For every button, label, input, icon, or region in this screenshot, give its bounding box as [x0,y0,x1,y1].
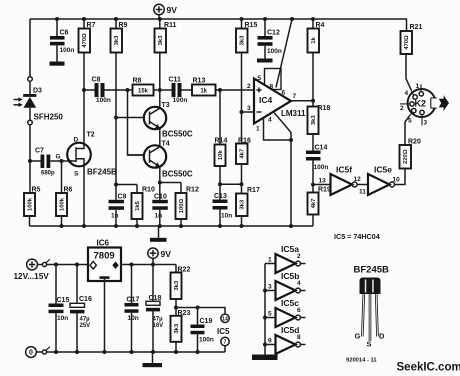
wire IC4 pin1 [264,118,292,140]
node rail junctions [55,17,315,21]
svg-text:C17: C17 [127,296,140,303]
svg-text:25V: 25V [80,323,91,329]
svg-text:13: 13 [319,178,327,185]
capacitor C10 1n [152,183,168,227]
svg-text:C15: C15 [57,297,70,304]
pin 7 of IC5 [221,337,229,352]
wire T2 source to ground rail [83,166,85,226]
svg-text:1n: 1n [155,212,163,219]
svg-text:10n: 10n [128,315,139,322]
svg-text:3k3: 3k3 [240,199,246,210]
svg-text:BC550C: BC550C [162,130,193,139]
node R14/C13 [218,182,222,186]
node T3 base [114,116,118,120]
svg-text:R19: R19 [318,187,331,194]
capacitor C11 100n [162,77,192,105]
svg-text:R10: R10 [142,187,155,194]
svg-text:16V: 16V [153,323,164,329]
svg-text:4k7: 4k7 [240,148,246,159]
svg-text:8: 8 [270,84,274,91]
SECTION: bottom right extras [252,232,460,374]
svg-text:4: 4 [268,117,272,124]
svg-text:12V...15V: 12V...15V [14,272,50,281]
svg-text:3: 3 [268,284,272,291]
photodiode D3 SFH250 [14,19,64,161]
svg-text:S: S [74,171,79,178]
wire T3 emitter to T4 collector [159,128,161,147]
resistor R20 220R [400,115,421,168]
wire IC6 output to R22 [121,264,176,266]
svg-text:C13: C13 [214,193,227,200]
svg-text:R14: R14 [215,138,228,145]
svg-text:8: 8 [297,334,301,341]
wire R9 to T3 base and C9 (crosses C8 wire, no join) [115,53,117,185]
node C9 / R10 [114,183,118,187]
ground symbol spare gates [252,355,278,361]
svg-text:6: 6 [282,90,286,97]
inverter IC5d [265,325,306,354]
svg-text:5: 5 [408,118,412,125]
capacitor C12 100n [258,19,282,59]
svg-text:1: 1 [268,257,272,264]
svg-text:C10: C10 [154,193,167,200]
node IC4 pin2 / R14 [218,88,222,92]
node R22/R23 divider [174,306,178,310]
terminal + input [27,259,38,270]
svg-text:SeekIC.com: SeekIC.com [397,362,460,374]
resistor R21 470R [401,19,423,90]
svg-text:5: 5 [268,311,272,318]
resistor R23 3k3 [171,308,191,353]
svg-text:10k: 10k [218,150,224,161]
wire IC4 ground column [290,140,292,226]
svg-text:T3: T3 [162,102,170,109]
svg-text:220Ω: 220Ω [403,149,409,164]
svg-text:SFH250: SFH250 [34,113,64,122]
resistor R14 10k [215,90,228,184]
wire spare-gate input bus [264,264,266,355]
svg-text:4: 4 [405,90,409,97]
node T4 base branch [126,88,130,92]
op-amp IC4 LM311 [247,19,306,133]
svg-text:100n: 100n [267,48,282,55]
svg-text:G: G [56,154,61,161]
node pin1/pin4 join [289,138,293,142]
svg-text:2: 2 [400,105,404,112]
svg-text:1k5: 1k5 [135,200,141,211]
wire divider to IC5 pin 14 [176,308,225,315]
node R16/R17 [240,182,244,186]
svg-text:BF245B: BF245B [87,168,117,177]
connector K2 DIN socket [400,83,438,127]
resistor R9 3k3 [111,19,128,53]
node C7 left [28,159,32,163]
svg-text:IC5: IC5 [217,327,230,336]
capacitor C18 47u/16V electrolytic [146,265,163,353]
svg-text:7809: 7809 [94,251,115,262]
node IC4 pin3 tap [240,110,244,114]
wire ground rail of amplifier [30,225,314,227]
svg-text:C6: C6 [60,30,69,37]
svg-text:920014 - 11: 920014 - 11 [346,358,377,364]
svg-text:IC5 = 74HC04: IC5 = 74HC04 [334,232,380,241]
inverter IC5f [331,165,367,196]
svg-text:100n: 100n [60,47,75,54]
capacitor C15 10n [49,265,70,353]
svg-text:3: 3 [424,120,428,127]
wire to T4 base [128,90,144,155]
svg-text:9V: 9V [167,5,178,15]
transistor T4 BC550C [128,141,193,179]
capacitor C6 [50,19,74,62]
ground bar under C12 [257,59,273,63]
capacitor C16 47u/25V electrolytic [70,265,92,353]
node T4 emitter [158,181,162,185]
svg-text:C14: C14 [315,145,328,152]
svg-text:10n: 10n [57,315,68,322]
svg-text:47µ: 47µ [153,317,164,323]
svg-text:D: D [379,332,385,341]
wire IC5e output to R20 [395,169,406,185]
svg-text:1k: 1k [311,37,317,44]
resistor R18 3k3 [308,101,331,151]
svg-text:11: 11 [359,189,366,196]
node C17 top [130,263,134,267]
svg-text:R17: R17 [247,187,260,194]
resistor R7 470R [79,19,96,53]
pin 14 of IC5 [221,314,229,322]
power +9V symbol (regulated) [148,248,171,265]
wire IC4 pin4 [274,112,292,140]
svg-text:D3: D3 [33,88,42,95]
node C19 top [196,306,200,310]
resistor R10 1k5 [116,185,155,227]
svg-text:IC5e: IC5e [374,165,392,175]
wire node X to T3 collector [159,90,161,108]
svg-text:R8: R8 [133,78,142,85]
svg-text:100n: 100n [199,337,214,344]
svg-text:C16: C16 [79,296,92,303]
capacitor C9 1n [109,185,127,227]
wire IC4 output pin7 [291,100,313,102]
wire R14 node to R16/R17 node [220,183,242,185]
svg-text:10n: 10n [221,213,232,220]
wire pin3 [242,111,255,113]
node C18 / 9V tap [151,263,155,267]
svg-text:R13: R13 [193,78,206,85]
svg-text:100n: 100n [173,97,188,104]
svg-text:4: 4 [297,280,301,287]
wire R11 to output node X [159,53,161,91]
svg-text:47µ: 47µ [80,317,91,323]
svg-text:680p: 680p [41,171,55,177]
svg-text:1n: 1n [111,212,119,219]
svg-text:7: 7 [293,93,297,100]
svg-text:IC6: IC6 [97,239,110,248]
regulator IC6 7809 [88,239,121,282]
svg-text:4k7: 4k7 [311,198,317,209]
svg-text:C7: C7 [35,148,44,155]
svg-text:C19: C19 [200,318,213,325]
svg-text:C12: C12 [267,30,280,37]
wire to IC5f input, pin 13 [313,184,331,186]
svg-text:R12: R12 [186,187,199,194]
svg-text:1k: 1k [200,88,207,94]
inverter IC5b [265,271,306,300]
svg-text:C8: C8 [92,77,101,84]
capacitor C19 100n [191,308,214,353]
svg-text:BC550C: BC550C [162,170,193,179]
svg-text:9V: 9V [161,249,172,259]
capacitor C8 100n [84,77,133,105]
resistor R11 3k3 [155,19,177,53]
svg-text:12: 12 [354,176,362,183]
svg-text:K2: K2 [415,99,427,109]
svg-text:T2: T2 [87,132,95,139]
contact symbol 0 [36,347,49,354]
inverter IC5a [265,244,306,273]
capacitor C17 10n [125,265,140,353]
svg-text:2: 2 [247,83,251,90]
svg-text:C9: C9 [118,193,127,200]
svg-text:C18: C18 [149,295,162,302]
inverter IC5c [265,298,306,327]
svg-text:D: D [74,137,79,144]
node C8 tap [82,88,86,92]
svg-text:100Ω: 100Ω [179,198,185,213]
svg-text:470Ω: 470Ω [82,33,88,48]
svg-text:3k3: 3k3 [174,323,180,334]
resistor R13 1k [192,78,254,96]
resistor R4 1k pull-up [308,19,325,101]
svg-text:BF245B: BF245B [354,265,390,276]
transistor package drawing BF245B [354,265,390,349]
svg-text:15k: 15k [138,88,149,94]
svg-text:100k: 100k [28,197,34,211]
svg-text:10: 10 [393,177,401,184]
svg-text:100k: 100k [60,197,66,211]
svg-text:6: 6 [297,307,301,314]
arrow output marker [439,95,449,111]
svg-text:14: 14 [222,316,228,322]
capacitor C14 100n [306,145,328,185]
ground bar under C6 [50,62,65,66]
node output / R4 / R18 [311,99,315,103]
node C15 top [54,263,58,267]
transistor T2 BF245B [62,132,118,178]
power +9V symbol [154,4,177,19]
transistor T3 BC550C [116,102,193,139]
wire +9V supply rail [30,18,407,20]
node X (T3 collector / R8 / C11) [158,88,162,92]
resistor R6 100k [56,161,73,226]
svg-text:R21: R21 [410,24,423,31]
ground symbol on bottom rail [143,352,163,367]
node T2 gate [60,159,64,163]
node C14 / R19 / IC5f input [311,183,315,187]
contact symbol + [37,259,49,266]
svg-text:G: G [355,332,361,341]
svg-text:LM311: LM311 [281,109,306,118]
svg-text:3k3: 3k3 [114,35,120,46]
svg-text:3k3: 3k3 [240,35,246,46]
svg-text:100n: 100n [96,97,111,104]
svg-text:5: 5 [258,75,262,82]
node bus junctions [263,289,267,347]
node ground rail junctions [60,224,294,228]
svg-text:3k3: 3k3 [311,115,317,126]
svg-text:3k3: 3k3 [174,280,180,291]
terminal 0 input [26,347,37,358]
ground symbol on amplifier rail [150,226,167,242]
svg-text:9: 9 [268,338,272,345]
svg-text:1: 1 [256,126,260,133]
svg-text:T4: T4 [162,141,170,148]
resistor R5 100k [24,161,41,226]
wire IC6 ground to rail [104,279,106,352]
svg-text:7: 7 [224,340,227,346]
wire IC5f to IC5e [357,184,368,186]
svg-text:3: 3 [247,105,251,112]
wire + input to IC6 [47,264,88,266]
svg-text:100n: 100n [314,164,329,171]
wire bottom ground rail [47,351,225,353]
wire T4 emitter down [159,167,161,183]
wire R7 to T2 drain / C8 node [83,53,85,144]
SECTION: power supply [14,239,231,368]
svg-text:470Ω: 470Ω [404,35,410,50]
node bottom rail junctions [54,350,200,354]
svg-text:IC5f: IC5f [336,165,352,175]
resistor R19 4k7 [308,185,331,227]
resistor R16 4k7 [236,138,251,185]
svg-text:2: 2 [297,253,301,260]
svg-text:1: 1 [416,83,420,90]
capacitor C13 10n [213,184,233,226]
inverter IC5e [368,165,400,196]
resistor R17 3k3 [236,184,260,226]
svg-text:S: S [367,340,372,349]
node C16 top [75,263,79,267]
svg-text:3k3: 3k3 [158,35,164,46]
resistor R15 3k3 [236,19,257,144]
svg-text:0: 0 [29,350,33,357]
resistor R8 15k [133,78,158,96]
resistor R22 3k3 [171,265,191,308]
svg-text:C11: C11 [169,77,182,84]
svg-text:IC4: IC4 [259,95,273,105]
SECTION: top amplifier [14,4,450,242]
capacitor C7 680p [30,148,62,177]
resistor R12 100R [160,183,199,227]
